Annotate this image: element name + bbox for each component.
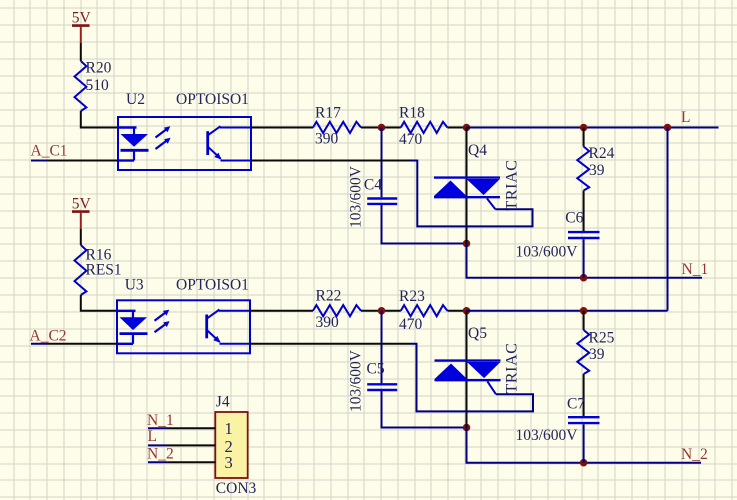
svg-text:C7: C7 [567, 396, 585, 413]
svg-text:Q4: Q4 [468, 142, 487, 159]
svg-text:N_1: N_1 [682, 261, 709, 278]
wire [583, 311, 585, 330]
svg-text:470: 470 [399, 316, 423, 333]
wire [361, 310, 401, 312]
wire [382, 205, 467, 244]
wire [251, 127, 313, 129]
wire [382, 391, 467, 428]
wire [467, 310, 668, 312]
svg-text:510: 510 [86, 77, 110, 94]
svg-text:A_C2: A_C2 [30, 328, 67, 345]
svg-text:N_1: N_1 [147, 412, 174, 429]
svg-text:5V: 5V [72, 10, 92, 27]
svg-text:C4: C4 [364, 177, 382, 194]
wire [31, 160, 118, 162]
capacitor C6 [516, 210, 600, 261]
triac Q5 [435, 325, 521, 394]
wire [583, 374, 585, 416]
wire [447, 310, 466, 312]
svg-text:C6: C6 [565, 210, 583, 227]
svg-text:TRIAC: TRIAC [504, 343, 521, 394]
wire [31, 343, 117, 345]
svg-text:N_2: N_2 [147, 446, 174, 463]
svg-text:R25: R25 [589, 330, 615, 347]
wire [381, 311, 383, 384]
svg-text:R23: R23 [399, 288, 425, 305]
junction [463, 307, 471, 315]
svg-text:39: 39 [589, 346, 605, 363]
resistor R17 [313, 105, 361, 148]
svg-text:390: 390 [315, 131, 339, 148]
wire [148, 461, 215, 463]
svg-text:R17: R17 [315, 105, 341, 122]
wire [250, 310, 313, 312]
power 5V (top) [72, 10, 92, 44]
svg-text:103/600V: 103/600V [516, 244, 579, 261]
svg-text:39: 39 [589, 162, 605, 179]
wire (gate path) [251, 160, 410, 162]
wire [361, 127, 401, 129]
wire (L to lower circuit) [667, 128, 669, 311]
svg-text:103/600V: 103/600V [516, 427, 579, 444]
wire (gate path) [250, 343, 410, 345]
resistor R23 [399, 288, 447, 333]
svg-text:R22: R22 [316, 288, 342, 305]
junction [463, 240, 471, 248]
svg-text:U3: U3 [125, 277, 144, 294]
wire [80, 229, 82, 245]
optocoupler U3 [117, 277, 250, 354]
resistor R24 [577, 145, 614, 191]
svg-text:103/600V: 103/600V [347, 165, 364, 228]
svg-text:U2: U2 [126, 91, 145, 108]
connector J4 [215, 394, 256, 498]
svg-text:L: L [148, 428, 157, 445]
wire (triac branch) [466, 311, 468, 428]
svg-text:R18: R18 [399, 105, 425, 122]
svg-text:C5: C5 [367, 361, 385, 378]
resistor R18 [399, 105, 447, 149]
svg-text:3: 3 [225, 453, 233, 472]
wire [148, 427, 215, 429]
wire (N_1 rail) [467, 244, 703, 278]
junction [378, 124, 386, 132]
svg-text:L: L [681, 109, 690, 126]
svg-text:N_2: N_2 [681, 446, 708, 463]
resistor R20 [75, 60, 112, 112]
junction [580, 274, 588, 282]
wire (N_2 rail) [467, 428, 702, 463]
wire (L rail) [467, 127, 719, 129]
power 5V (bottom) [72, 196, 92, 230]
junction [580, 124, 588, 132]
junction [463, 424, 471, 432]
junction [580, 459, 588, 467]
resistor R16 [75, 245, 122, 295]
junction [378, 307, 386, 315]
wire [148, 444, 215, 446]
svg-text:Q5: Q5 [468, 325, 487, 342]
junction [463, 124, 471, 132]
svg-text:OPTOISO1: OPTOISO1 [176, 277, 249, 294]
svg-text:390: 390 [316, 314, 340, 331]
wire [381, 128, 383, 198]
triac Q4 [434, 142, 521, 211]
svg-text:5V: 5V [72, 196, 92, 213]
junction [664, 124, 672, 132]
svg-text:TRIAC: TRIAC [504, 160, 521, 211]
svg-text:RES1: RES1 [86, 262, 122, 279]
svg-text:R20: R20 [86, 60, 112, 77]
wire [81, 111, 118, 128]
wire [583, 191, 585, 232]
svg-text:A_C1: A_C1 [31, 143, 68, 160]
wire [583, 239, 585, 278]
svg-text:OPTOISO1: OPTOISO1 [176, 91, 249, 108]
junction [580, 307, 588, 315]
capacitor C7 [516, 396, 600, 445]
wire [80, 43, 82, 61]
wire [583, 128, 585, 147]
svg-text:470: 470 [399, 131, 423, 148]
wire [447, 127, 466, 129]
svg-text:1: 1 [225, 419, 233, 438]
svg-text:R24: R24 [589, 145, 615, 162]
resistor R22 [313, 288, 361, 332]
wire (triac branch) [466, 128, 468, 244]
capacitor C5 [347, 349, 397, 412]
svg-text:CON3: CON3 [216, 480, 257, 497]
wire [81, 295, 117, 311]
optocoupler U2 [118, 91, 251, 170]
svg-text:J4: J4 [216, 394, 230, 411]
resistor R25 [577, 330, 614, 375]
wire [583, 424, 585, 462]
capacitor C4 [347, 165, 397, 228]
svg-text:103/600V: 103/600V [347, 349, 364, 412]
